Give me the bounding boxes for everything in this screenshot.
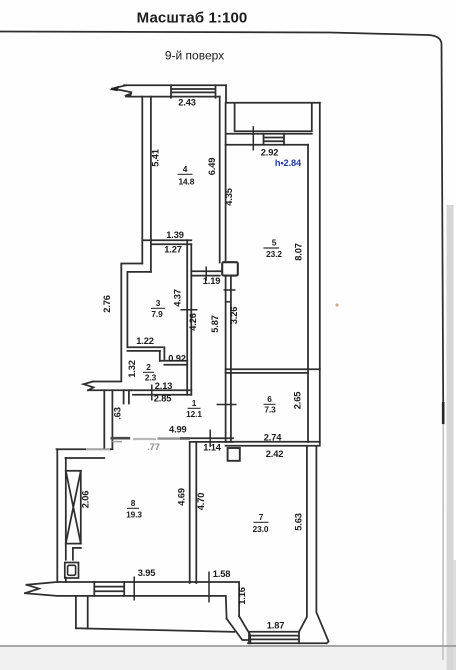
svg-text:2.42: 2.42	[266, 449, 284, 459]
svg-text:1: 1	[192, 398, 197, 408]
neck below X box	[66, 544, 81, 560]
svg-text:9-й поверх: 9-й поверх	[165, 49, 224, 63]
page frame bottom rule	[0, 645, 456, 647]
svg-text:2.43: 2.43	[178, 98, 196, 108]
room8 top wall	[57, 449, 113, 458]
tick 4.37/4.26	[181, 309, 198, 311]
svg-text:0.92: 0.92	[168, 354, 186, 364]
svg-text:1.58: 1.58	[213, 569, 231, 579]
svg-text:8.07: 8.07	[294, 243, 304, 261]
header rule / page frame top	[0, 32, 443, 425]
step left inner	[127, 272, 150, 347]
svg-text:23.0: 23.0	[253, 524, 269, 534]
room5 window band bottom	[226, 144, 308, 146]
tick on hall wall upper	[224, 289, 236, 291]
svg-text:1.22: 1.22	[136, 336, 154, 346]
step left outer	[121, 264, 142, 381]
svg-text:5.41: 5.41	[151, 149, 161, 167]
svg-text:2.92: 2.92	[261, 148, 279, 158]
top wall room4 inner	[128, 96, 220, 98]
wall hall/rooms5-6	[226, 276, 231, 442]
svg-text:4.70: 4.70	[196, 493, 206, 511]
svg-text:7.3: 7.3	[264, 405, 276, 415]
svg-text:Масштаб 1:100: Масштаб 1:100	[137, 10, 248, 27]
room5 right inner wall	[307, 145, 309, 442]
room2 top wall	[127, 347, 162, 351]
wall 1.19	[191, 271, 221, 275]
wall rooms4/5	[220, 97, 226, 263]
bay bottom outer line	[248, 642, 327, 644]
niche top-right outline	[226, 85, 320, 102]
stub break end	[84, 382, 94, 391]
svg-text:1.32: 1.32	[127, 360, 137, 378]
svg-text:1.14: 1.14	[203, 443, 221, 453]
tick on hall wall lower	[217, 404, 237, 406]
balcony strip bottom	[76, 628, 234, 632]
svg-text:5.63: 5.63	[294, 513, 304, 531]
wall break arrow top-left	[110, 85, 133, 97]
bay left inner diagonal	[227, 619, 249, 640]
svg-text:8: 8	[131, 498, 136, 508]
svg-text:4.69: 4.69	[177, 488, 187, 506]
top wall room4 outer	[124, 84, 226, 86]
svg-text:2.76: 2.76	[102, 295, 112, 313]
svg-text:.63: .63	[113, 407, 123, 419]
break arrow bottom-left	[25, 585, 39, 593]
svg-text:1.27: 1.27	[164, 245, 182, 255]
room8 left wall	[57, 449, 66, 582]
svg-text:h•2.84: h•2.84	[275, 158, 302, 168]
room3/2 right wall	[187, 240, 191, 394]
svg-text:.77: .77	[147, 442, 159, 452]
tick 2.92	[252, 126, 254, 150]
niche inner rect	[235, 103, 312, 131]
right outer wall	[319, 103, 321, 444]
room6 bottom wall	[226, 442, 320, 446]
svg-text:1.19: 1.19	[203, 276, 221, 286]
tick 1.19	[205, 267, 207, 281]
shaft X box	[66, 471, 81, 544]
svg-text:7: 7	[259, 512, 264, 522]
window bottom band	[94, 582, 124, 596]
tick 2.85	[151, 385, 153, 401]
svg-text:4.26: 4.26	[188, 313, 198, 331]
room2 bottom wall	[131, 390, 191, 395]
svg-text:12.1: 12.1	[186, 409, 202, 419]
wall rooms5/6	[226, 369, 320, 373]
room7 right wall inner	[299, 446, 307, 632]
svg-text:4.99: 4.99	[169, 424, 187, 434]
wall rooms8/7	[190, 442, 197, 583]
svg-text:2.06: 2.06	[80, 491, 90, 509]
svg-text:2.74: 2.74	[264, 433, 282, 443]
svg-text:2.65: 2.65	[293, 392, 303, 410]
broken wall line hall bottom	[86, 438, 190, 449]
wall .63	[104, 390, 112, 449]
svg-text:7.9: 7.9	[151, 309, 163, 319]
svg-text:5: 5	[272, 237, 277, 247]
svg-text:19.3: 19.3	[126, 510, 142, 520]
room4 left wall	[142, 97, 151, 272]
svg-text:4: 4	[183, 164, 188, 174]
svg-text:2.13: 2.13	[155, 381, 173, 391]
junction box	[222, 262, 238, 275]
svg-text:3: 3	[156, 298, 161, 308]
balcony strip left column	[76, 596, 88, 629]
left stub wall	[88, 382, 131, 391]
page frame right lower (faded)	[442, 424, 444, 660]
tick 1.58 top	[209, 430, 211, 448]
hinge mark hall wall	[226, 301, 231, 303]
bay window	[249, 632, 299, 644]
stub right vertical	[124, 390, 129, 403]
svg-text:4.35: 4.35	[224, 188, 234, 206]
room3 top wall	[142, 240, 191, 244]
svg-text:3.95: 3.95	[138, 568, 156, 578]
bottom wall band outer	[27, 582, 240, 616]
svg-text:6.49: 6.49	[207, 158, 217, 176]
bottom gray strip	[0, 647, 456, 670]
svg-text:2: 2	[146, 362, 151, 372]
small duct box room8	[65, 563, 79, 579]
svg-text:23.2: 23.2	[266, 249, 282, 259]
svg-text:1.39: 1.39	[166, 230, 184, 240]
svg-text:5.87: 5.87	[210, 315, 220, 333]
svg-text:6: 6	[267, 394, 272, 404]
wall 1.14	[190, 438, 233, 442]
svg-text:2.85: 2.85	[154, 394, 172, 404]
svg-text:3.26: 3.26	[229, 307, 239, 325]
small orange speck	[335, 303, 338, 306]
room7 right wall outer	[316, 446, 328, 643]
step 0.92	[160, 347, 187, 364]
svg-text:1.16: 1.16	[237, 587, 247, 605]
svg-text:4.37: 4.37	[173, 289, 183, 307]
bay left outer diagonal	[239, 616, 250, 643]
window top wall	[171, 85, 216, 98]
right gray scan strip	[447, 205, 454, 670]
svg-text:14.8: 14.8	[179, 176, 195, 186]
bottom wall band inner	[25, 593, 227, 619]
duct box hall bottom	[228, 448, 240, 461]
room5 window band top	[227, 133, 312, 135]
window room5	[264, 134, 285, 145]
tick 1.58	[208, 572, 210, 603]
tick 3.95	[133, 577, 135, 601]
svg-text:1.87: 1.87	[267, 621, 285, 631]
